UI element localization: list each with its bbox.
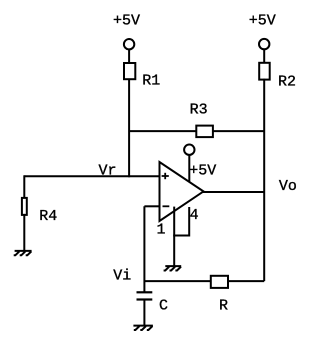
wire C to ground: [143, 300, 145, 326]
svg-text:R2: R2: [278, 74, 296, 91]
power terminal circle (op-amp +5V): [184, 145, 194, 155]
wire circle to R2: [263, 49, 265, 64]
svg-text:R: R: [219, 298, 228, 315]
svg-text:+5V: +5V: [249, 13, 276, 30]
power terminal circle (right +5V): [259, 39, 269, 49]
wire op-amp V+ pin: [188, 155, 190, 182]
resistor R3: [196, 126, 213, 138]
wire circle to R1: [128, 49, 130, 64]
resistor R4: [22, 198, 27, 215]
svg-text:C: C: [159, 298, 168, 315]
wire R4 to ground: [23, 214, 25, 251]
svg-text:Vo: Vo: [279, 178, 297, 195]
svg-text:Vi: Vi: [113, 268, 131, 285]
capacitor C top plate: [137, 291, 153, 293]
wire R2 down right rail to bottom: [263, 79, 265, 281]
svg-text:1: 1: [157, 222, 166, 239]
wire minus input down to Vi node: [143, 206, 145, 292]
svg-text:R3: R3: [190, 102, 208, 119]
ground (op-amp pins): [164, 266, 182, 270]
wire R3 horizontal feedback: [129, 130, 264, 132]
wire pin4 to pin1 connector: [173, 235, 189, 237]
wire Vr corner down to R4: [23, 175, 25, 199]
op-amp - input marker: [163, 205, 170, 207]
op-amp + input marker: [162, 173, 169, 179]
op-amp U1 triangle: [160, 162, 204, 221]
wire R to right rail corner: [228, 280, 264, 282]
svg-text:+5V: +5V: [113, 13, 140, 30]
capacitor C bottom plate: [137, 298, 153, 300]
resistor R: [211, 276, 228, 288]
wire Vi node horizontal to R: [144, 280, 211, 282]
resistor R1: [124, 63, 135, 79]
wire R1 down to Vr node: [128, 79, 130, 177]
svg-text:4: 4: [190, 207, 199, 224]
svg-text:R4: R4: [39, 208, 57, 225]
power terminal circle (left +5V): [124, 39, 134, 49]
resistor R2: [259, 63, 270, 80]
ground (below C): [133, 326, 153, 330]
wire output Vo: [203, 191, 264, 193]
wire op-amp pin 1: [173, 207, 175, 266]
ground (below R4): [14, 251, 32, 255]
wire minus input stub: [144, 205, 159, 207]
wire op-amp pin 4: [188, 207, 190, 237]
svg-text:R1: R1: [142, 73, 160, 90]
wire Vr node horizontal: [24, 175, 159, 177]
svg-text:+5V: +5V: [189, 162, 216, 179]
